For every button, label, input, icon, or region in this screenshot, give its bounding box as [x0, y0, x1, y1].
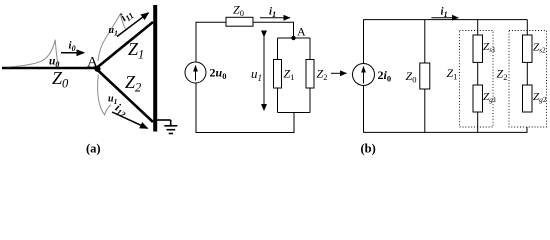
- resistor Zs2: [523, 35, 533, 62]
- wire Z1 branch top: [477, 20, 479, 35]
- svg-text:Zg1: Zg1: [483, 91, 497, 104]
- wire left rail bottom: [364, 86, 528, 133]
- wire left rail top: [364, 20, 528, 64]
- voltage arrow u1: [263, 37, 265, 111]
- wire left rail top: [196, 22, 226, 62]
- svg-text:Zs2: Zs2: [533, 42, 546, 55]
- wire left rail bottom: [196, 83, 294, 133]
- wire between Zs2 and Zg2: [526, 62, 528, 85]
- svg-text:Z2: Z2: [497, 67, 508, 83]
- branch line Z1 (upper): [97, 22, 154, 68]
- svg-text:(b): (b): [361, 142, 376, 156]
- refracted wave u1 (upper branch): [98, 14, 126, 61]
- svg-text:Z2: Z2: [125, 72, 141, 95]
- svg-text:Z0: Z0: [233, 3, 244, 19]
- wire bottom sub-bus: [278, 112, 311, 114]
- svg-text:i11: i11: [118, 7, 135, 25]
- wire Z1 branch top: [277, 38, 279, 60]
- wire Z0 branch bottom: [424, 89, 426, 132]
- ground: [157, 120, 177, 134]
- svg-text:2u0: 2u0: [210, 66, 227, 82]
- svg-text:u1: u1: [251, 66, 262, 83]
- svg-text:u1: u1: [109, 25, 118, 38]
- svg-text:A: A: [297, 25, 306, 39]
- svg-text:Z1: Z1: [128, 39, 144, 62]
- voltage source U1 (2u0): [185, 62, 206, 83]
- refracted wave u1 (lower branch): [98, 75, 111, 115]
- svg-text:u1: u1: [108, 94, 117, 107]
- current arrow i1: [431, 17, 458, 19]
- svg-text:Zg2: Zg2: [533, 91, 547, 104]
- svg-text:Zs1: Zs1: [483, 41, 496, 54]
- current arrow i12: [112, 112, 148, 128]
- current arrow i1: [260, 17, 290, 19]
- wire between Zs1 and Zg1: [477, 62, 479, 85]
- surge waveform u0 on line Z0: [7, 40, 58, 67]
- transmission line Z0: [2, 67, 97, 70]
- svg-text:Z1: Z1: [284, 67, 295, 83]
- dashed decomposition box of Z1: [460, 31, 494, 128]
- node A junction dot: [94, 66, 100, 72]
- svg-text:Z2: Z2: [317, 67, 328, 83]
- wire Z2 branch bottom: [309, 88, 311, 113]
- svg-text:u0: u0: [49, 56, 59, 70]
- resistor Zs1: [473, 35, 483, 62]
- resistor Zg1: [473, 85, 483, 112]
- current source I1 (2i0): [353, 64, 375, 86]
- svg-text:Z0: Z0: [52, 68, 69, 91]
- current arrow i0: [61, 52, 84, 54]
- resistor Z2: [306, 60, 314, 89]
- svg-text:Z1: Z1: [447, 66, 458, 82]
- svg-text:Z0: Z0: [406, 69, 417, 85]
- wire top right: [253, 22, 294, 38]
- wire Z2 branch top: [526, 20, 528, 35]
- wire node bus: [278, 37, 311, 39]
- wire Z1 branch bottom: [477, 112, 479, 132]
- wire Z1 branch bottom: [277, 88, 279, 113]
- equivalence arrow: [331, 72, 347, 74]
- svg-text:2i0: 2i0: [378, 68, 392, 84]
- svg-text:i1: i1: [269, 6, 276, 20]
- wire Z0 branch top: [424, 20, 426, 63]
- wall (junction bus bar): [153, 5, 157, 132]
- node A dot: [291, 36, 295, 40]
- svg-text:i1: i1: [441, 6, 448, 20]
- resistor Z0 (shunt): [420, 63, 430, 89]
- branch line Z2 (lower): [97, 69, 154, 122]
- resistor Z1: [274, 60, 282, 89]
- current arrow i11: [117, 13, 149, 37]
- resistor Z0 (series): [226, 17, 253, 26]
- resistor Zg2: [523, 85, 533, 112]
- dashed decomposition box of Z2: [509, 31, 547, 128]
- svg-text:(a): (a): [86, 142, 101, 156]
- svg-text:i0: i0: [69, 40, 76, 54]
- wire Z2 branch top: [309, 38, 311, 60]
